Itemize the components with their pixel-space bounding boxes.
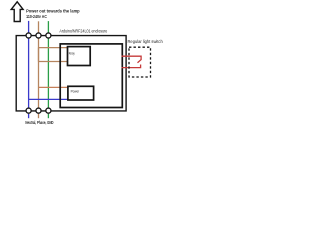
wire: brown branch to relay top	[39, 47, 68, 49]
wire: green bottom stub	[47, 114, 49, 118]
node circle bottom blue	[26, 108, 31, 113]
wire: blue branch to power	[29, 98, 68, 100]
wire: blue top stub	[28, 21, 30, 34]
wire: brown top stub	[38, 21, 40, 34]
svg-text:110-240v AC: 110-240v AC	[26, 14, 47, 20]
arrow (power out, up arrow outline)	[11, 2, 23, 22]
svg-text:Power: Power	[71, 90, 80, 94]
svg-text:Neutral, Phase, GND: Neutral, Phase, GND	[25, 120, 54, 125]
svg-text:Arduino/NRF24L01 enclosure: Arduino/NRF24L01 enclosure	[59, 28, 107, 34]
relay module box	[68, 47, 91, 66]
wire: red switch loop top + blade	[122, 56, 142, 63]
wire: green vertical (GND)	[47, 34, 49, 111]
node circle top green	[46, 33, 51, 38]
wire: black loop bus (top, right, bottom, left)	[16, 36, 126, 111]
power supply box	[68, 86, 94, 100]
svg-text:Power out towards the lamp: Power out towards the lamp	[26, 9, 80, 15]
wire: blue vertical (neutral)	[28, 34, 30, 111]
node circle top brown	[36, 33, 41, 38]
svg-text:Relay: Relay	[69, 50, 75, 55]
wire: green top stub	[47, 21, 49, 34]
node circle top blue	[26, 33, 31, 38]
wire: brown branch to relay bottom	[39, 61, 68, 63]
wire: brown vertical between relay branches	[38, 48, 40, 62]
node circle bottom green	[46, 108, 51, 113]
wire: red switch loop bottom + contact	[122, 65, 141, 68]
wire: brown bottom stub	[38, 114, 40, 118]
svg-text:Regular light switch: Regular light switch	[128, 39, 163, 45]
wire: brown branch to power	[39, 86, 68, 88]
switch box SW1 (dashed, regular light switch)	[129, 47, 151, 77]
enclosure box U1 (Arduino/NRF24L01)	[60, 44, 122, 108]
wire: brown vertical (phase)	[38, 34, 40, 111]
wire: blue bottom stub	[28, 114, 30, 118]
node circle bottom brown	[36, 108, 41, 113]
